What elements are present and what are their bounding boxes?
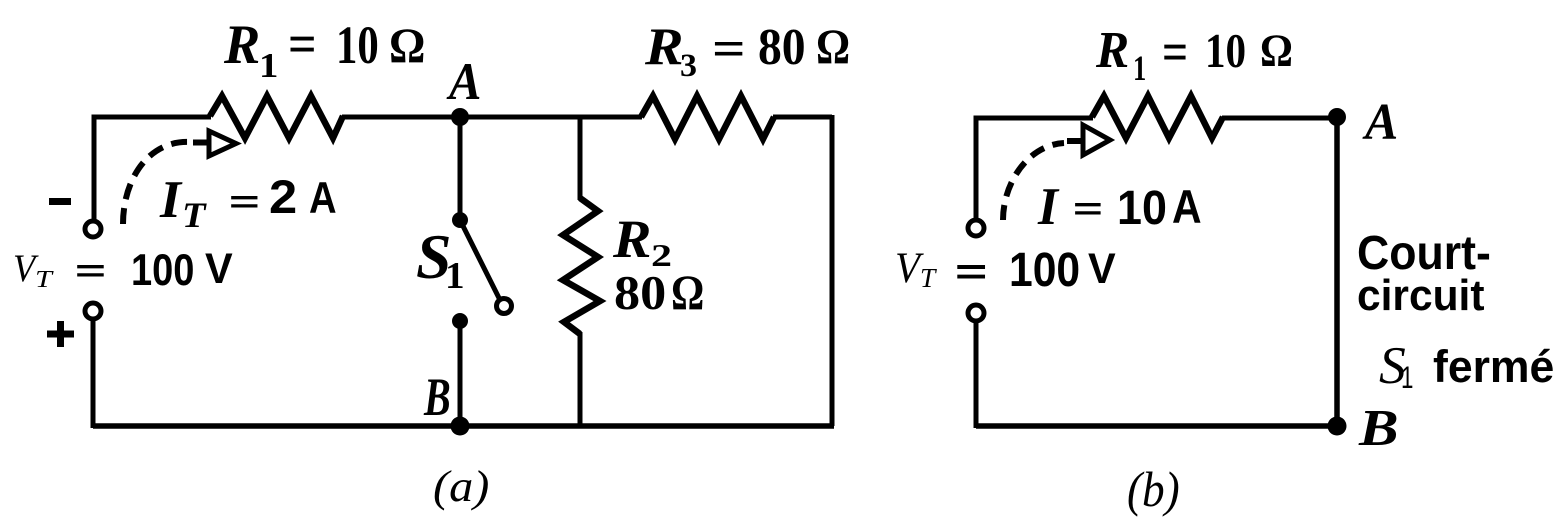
wire: circuit (b) top rail from R1 to node A [1222,116,1337,121]
svg-text:(b): (b) [1127,462,1180,517]
svg-text:I: I [159,171,183,229]
wire: circuit (b) left wall bottom segment [974,320,979,428]
current I dashed arc arrow, circuit (b) [1003,143,1064,220]
svg-text:B: B [423,367,450,427]
wire: R2 branch bottom lead to bottom rail [578,332,583,426]
svg-text:=: = [75,255,106,288]
resistor R3 of circuit (a), zigzag [641,96,774,139]
svg-text:80: 80 [758,19,806,76]
svg-text:1: 1 [1401,359,1413,395]
resistor R1 of circuit (a), zigzag [210,96,343,138]
svg-text:=: = [288,14,317,75]
svg-text:3: 3 [680,47,697,84]
svg-text:A: A [309,174,337,223]
svg-text:1: 1 [445,255,465,297]
wire: circuit (a) bottom rail [93,423,834,429]
svg-text:circuit: circuit [1357,271,1485,320]
node A junction dot, circuit (b) [1328,108,1346,126]
wire: circuit (a) top rail from R3 to top-right corner [773,115,832,120]
svg-text:B: B [1358,400,1399,457]
svg-text:10: 10 [1205,25,1246,78]
svg-text:R: R [223,14,260,76]
wire: circuit (b) left wall top segment with top-left corner [976,118,1093,221]
svg-text:=: = [955,252,987,292]
wire: circuit (b) right wall short-circuit link [1334,117,1340,426]
svg-text:10: 10 [1117,181,1167,235]
svg-text:V: V [205,245,233,293]
switch S1 upper contact dot [452,212,468,228]
switch S1 lower contact dot [452,313,468,329]
label minus sign of V_T [49,198,71,205]
svg-text:R: R [612,209,652,269]
svg-text:=: = [712,21,746,78]
svg-text:Ω: Ω [1260,25,1293,77]
svg-text:1: 1 [1133,48,1146,88]
svg-text:=: = [229,185,260,219]
svg-text:80: 80 [614,267,666,320]
terminal: circuit (b) V_T negative, open circle [968,220,984,236]
node B junction dot, circuit (a) [451,417,470,436]
svg-text:R: R [644,18,684,76]
current I arrow tail dash [1067,138,1081,144]
current I arrowhead, hollow triangle, circuit (b) [1083,125,1110,155]
svg-text:1: 1 [259,46,278,85]
svg-text:10: 10 [336,15,379,75]
current I_T arrow tail dash [193,140,208,146]
resistor R2 of circuit (a), vertical zigzag [563,198,600,334]
svg-text:A: A [1362,94,1398,151]
svg-text:A: A [1172,181,1202,233]
svg-text:T: T [920,263,937,293]
svg-text:=: = [1162,22,1188,83]
svg-text:100: 100 [131,246,194,295]
svg-text:T: T [182,195,207,235]
svg-text:fermé: fermé [1433,341,1554,392]
svg-text:I: I [1037,178,1060,236]
svg-text:A: A [446,53,481,111]
current I_T dashed arc arrow [123,142,190,224]
svg-text:Ω: Ω [389,18,425,73]
switch S1 blade tip open circle [497,299,512,314]
resistor R1 of circuit (b), zigzag [1092,96,1223,138]
svg-text:(a): (a) [433,463,489,511]
svg-text:Ω: Ω [816,19,850,74]
wire: node A down to switch S1 [458,117,463,220]
svg-text:100: 100 [1009,243,1080,297]
terminal: V_T positive terminal, open circle [85,303,101,319]
wire: circuit (a) left wall top segment with top-left corner [94,117,211,221]
wire: circuit (a) top rail from R1 to R3 through node A [342,115,642,120]
node A junction dot, circuit (a) [451,108,469,126]
current I_T arrowhead, hollow triangle [209,131,236,156]
terminal: V_T negative terminal, open circle [85,221,101,237]
wire: circuit (a) right wall [830,115,835,426]
switch S1 blade (open) [462,224,500,300]
wire: circuit (a) left wall bottom segment [91,320,96,428]
terminal: circuit (b) V_T positive, open circle [968,305,984,321]
svg-text:Ω: Ω [671,265,704,320]
svg-text:=: = [1073,193,1103,226]
node B junction dot, circuit (b) [1328,417,1347,436]
wire: switch S1 down to node B [458,321,463,426]
label plus sign of V_T [47,321,74,347]
wire: circuit (b) bottom rail [976,423,1337,429]
svg-text:R: R [1095,22,1129,79]
svg-text:T: T [35,266,54,293]
svg-text:V: V [1088,245,1116,293]
wire: R2 branch top lead from top rail [578,117,583,200]
svg-text:2: 2 [269,171,297,223]
